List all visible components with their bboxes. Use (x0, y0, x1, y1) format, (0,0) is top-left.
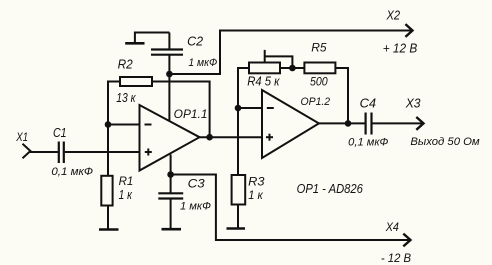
wire C3 top lead (170, 175, 172, 194)
ground under R3 (227, 227, 246, 230)
wire R5 right lead to output (335, 68, 348, 123)
wire C1 to op-amp + input (65, 151, 140, 153)
wire R4 left lead (238, 68, 249, 108)
svg-text:1 мкФ: 1 мкФ (180, 200, 211, 212)
wire OP1.2 output to C4 (319, 122, 365, 124)
wire R2 left lead (108, 82, 120, 125)
svg-text:0,1 мкФ: 0,1 мкФ (51, 166, 93, 178)
wire V+ pin of OP1.1 (168, 74, 170, 122)
connector X4 arrow (403, 234, 410, 247)
svg-text:OP1.2: OP1.2 (301, 96, 331, 108)
ground under R1 (99, 228, 119, 231)
wire X1 to C1 (30, 151, 58, 153)
svg-text:R5: R5 (311, 40, 327, 54)
svg-text:OP1.1: OP1.1 (174, 109, 208, 121)
svg-text:0,1 мкФ: 0,1 мкФ (348, 136, 388, 148)
svg-text:1 к: 1 к (119, 188, 133, 202)
wire C2 bottom lead (168, 55, 170, 74)
svg-text:500: 500 (310, 75, 328, 89)
connector X2 arrow (405, 24, 412, 37)
op-amp U1 OP1.1 (140, 105, 200, 171)
wire R1 top lead (107, 125, 109, 176)
svg-text:13 к: 13 к (116, 91, 136, 105)
svg-text:R2: R2 (118, 58, 133, 72)
svg-text:- 12 В: - 12 В (381, 252, 411, 265)
wire C2 top lead (168, 33, 170, 50)
wire R3 bottom lead (237, 205, 239, 229)
svg-text:Выход 50 Ом: Выход 50 Ом (410, 136, 480, 148)
wire R1 bottom lead (107, 206, 109, 230)
wire +12V rail to X2 (169, 31, 410, 75)
node output junction (206, 134, 213, 141)
capacitor C1 (59, 142, 64, 164)
svg-text:X4: X4 (385, 221, 400, 234)
node R4/R5 junction (289, 65, 296, 72)
svg-text:C3: C3 (188, 177, 206, 190)
node OP1.2 inverting node (235, 105, 242, 112)
wire OP1.2 inverting input (238, 107, 262, 109)
resistor R2 (120, 77, 152, 86)
wire R4 to R5 (280, 67, 304, 69)
connector X1 (23, 144, 31, 158)
capacitor C4 (366, 113, 372, 135)
wire V- to -12V rail (171, 175, 409, 241)
resistor R3 (232, 175, 246, 205)
connector X3 arrow (416, 117, 423, 130)
svg-text:R1: R1 (119, 174, 134, 188)
resistor R4 trimmer (249, 50, 292, 73)
op-amp U2 OP1.2 (262, 90, 319, 158)
node V+ junction (166, 71, 173, 78)
svg-text:X3: X3 (405, 97, 421, 111)
resistor R5 (304, 63, 335, 74)
svg-text:X2: X2 (386, 7, 401, 22)
svg-text:+ 12 В: + 12 В (383, 41, 418, 55)
svg-text:X1: X1 (15, 130, 28, 144)
resistor R1 (101, 176, 112, 206)
wire C3 bottom lead (170, 199, 172, 230)
svg-text:OP1 - AD826: OP1 - AD826 (297, 181, 364, 196)
node V- junction (167, 171, 174, 178)
wire R2 right lead to output feedback (152, 82, 210, 138)
wire OP1.1 output to OP1.2 + input (200, 136, 263, 138)
wire inverting input (108, 124, 140, 126)
capacitor C3 (158, 193, 183, 198)
node junction R1/R2 at inverting input (105, 121, 112, 128)
wire R3 top lead from OP1.2 inverting node (237, 108, 239, 175)
svg-text:C1: C1 (53, 126, 67, 140)
svg-text:C2: C2 (187, 35, 203, 49)
capacitor C2 (151, 50, 183, 55)
svg-text:R4 5 к: R4 5 к (247, 75, 280, 89)
wire V- pin of OP1.1 (170, 155, 172, 175)
svg-text:R3: R3 (248, 176, 265, 189)
wire C4 to X3 (373, 122, 423, 124)
ground at C2 (125, 33, 169, 44)
ground under C3 (162, 228, 182, 231)
svg-text:1 мкФ: 1 мкФ (188, 57, 217, 69)
svg-text:1 к: 1 к (248, 190, 263, 202)
node output/feedback junction (345, 120, 352, 127)
svg-text:C4: C4 (360, 97, 377, 111)
